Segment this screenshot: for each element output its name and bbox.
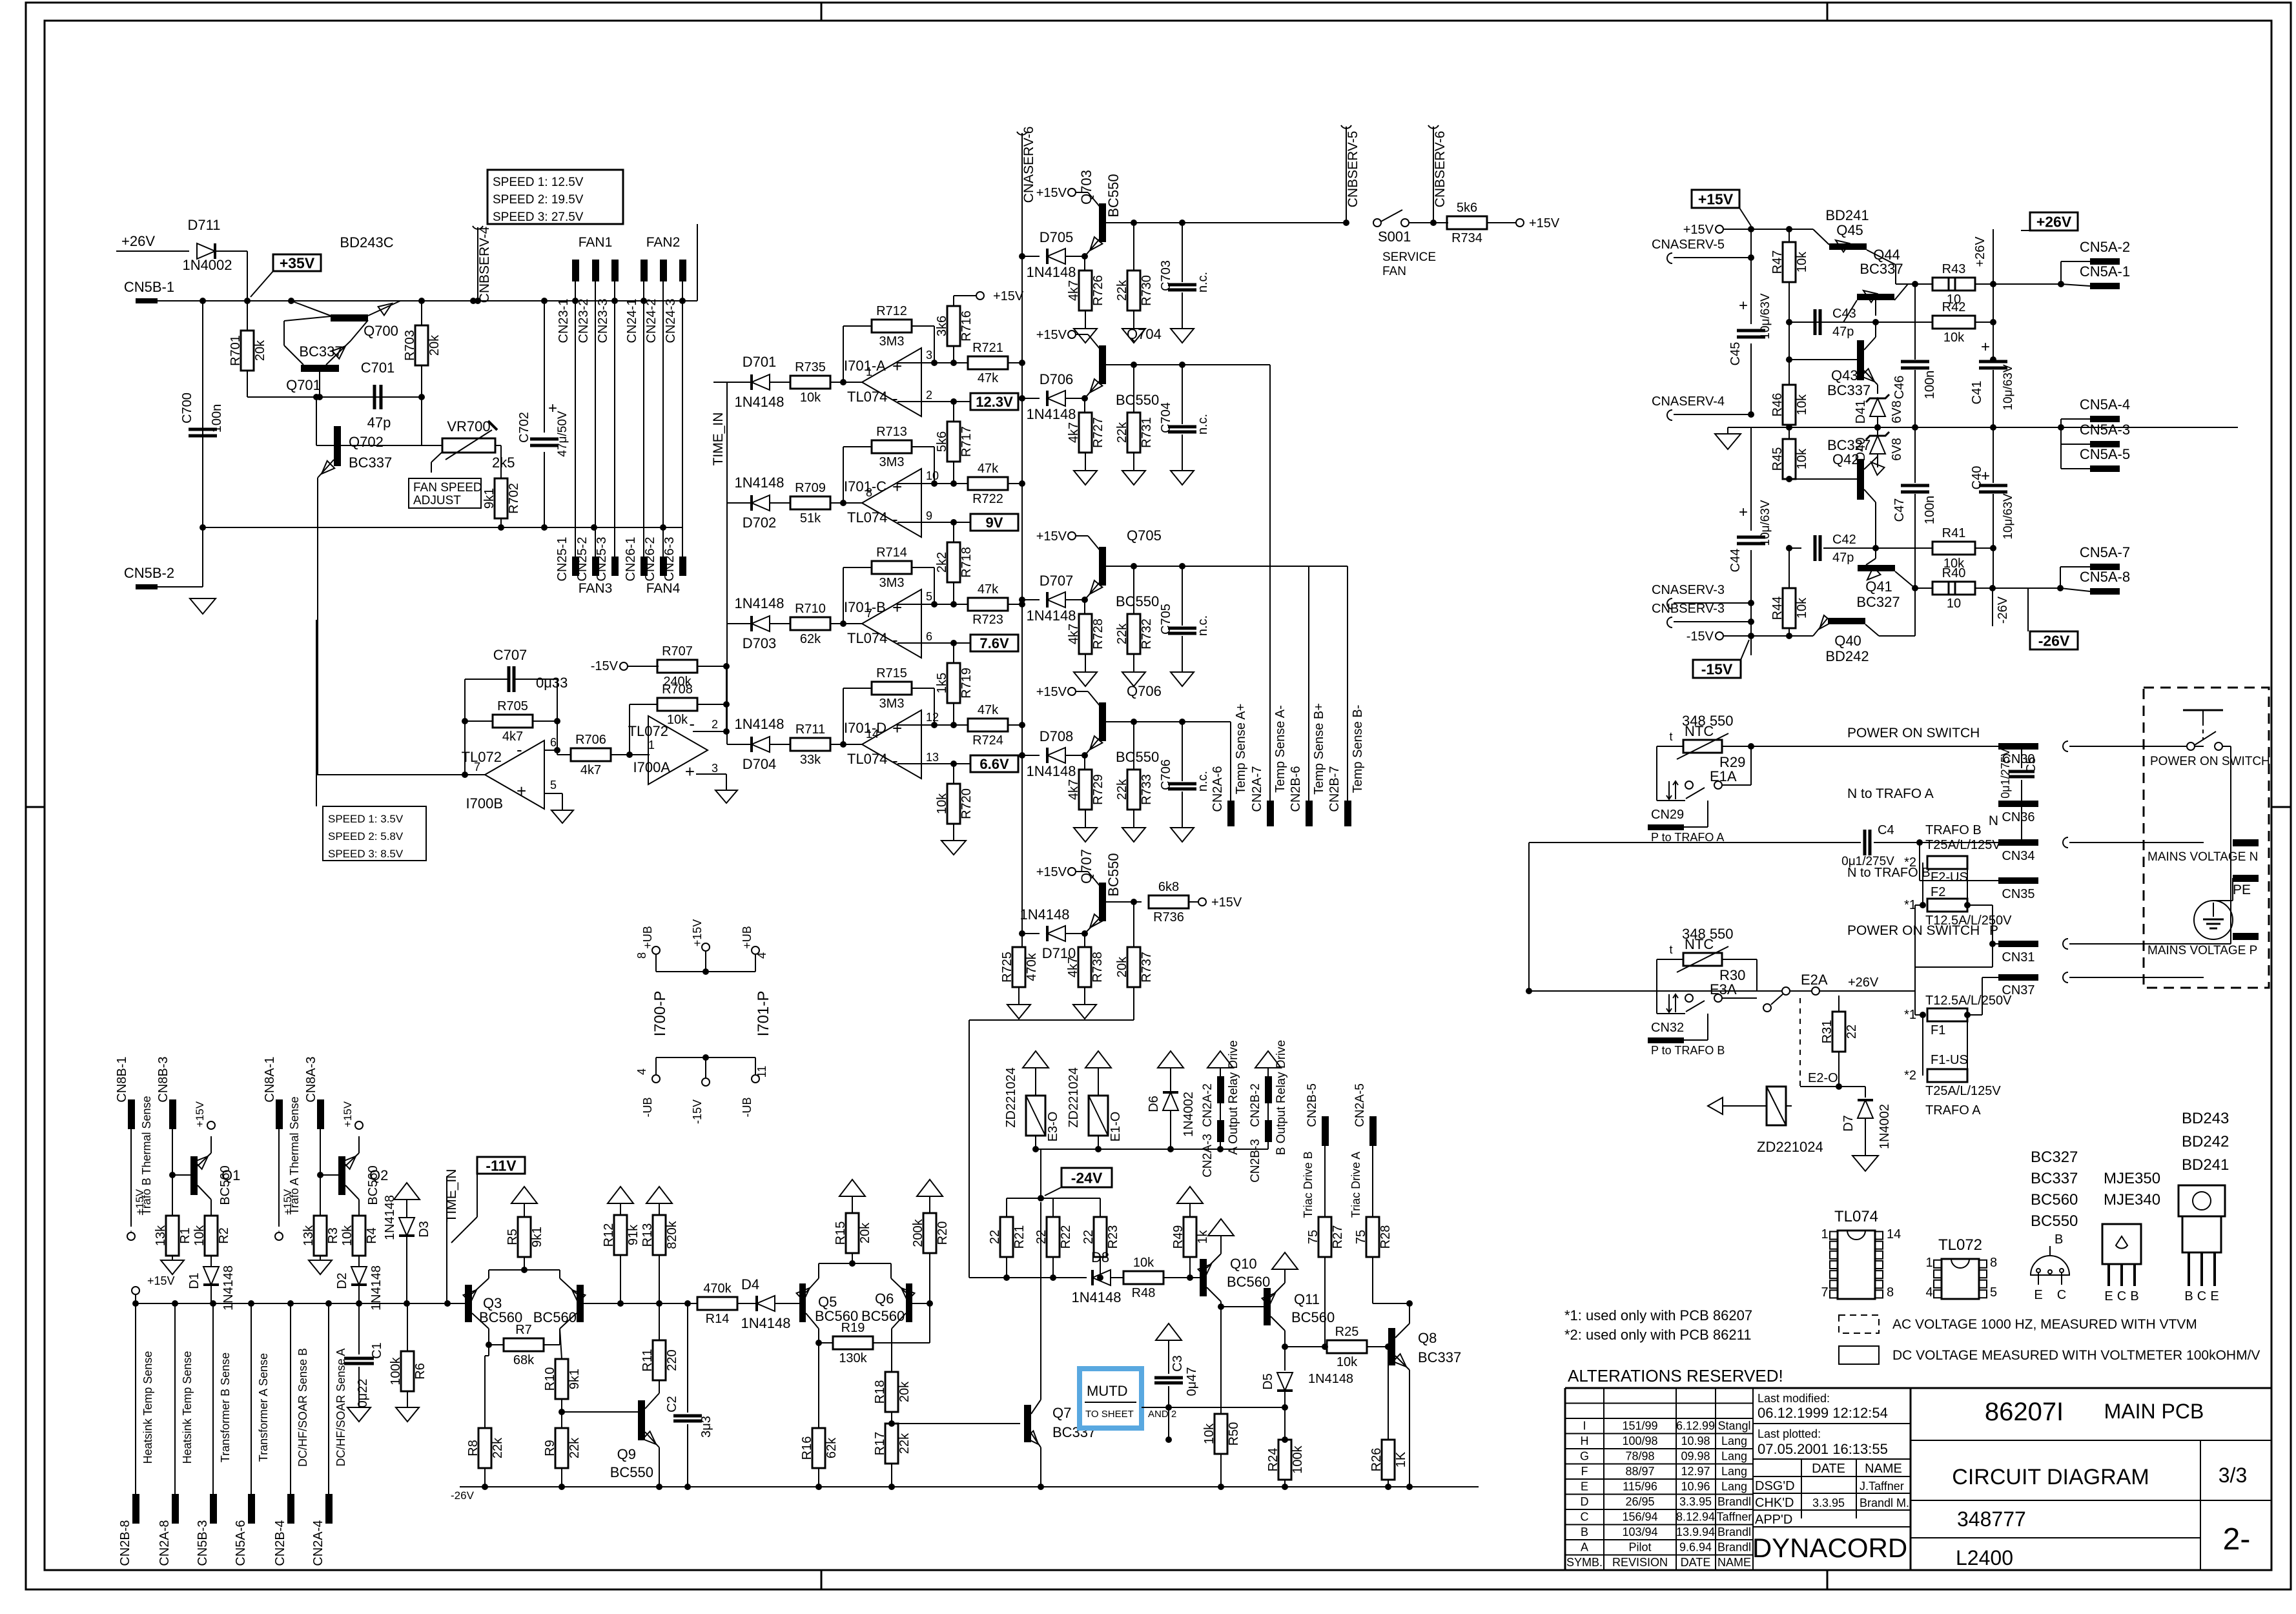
op-amp I701-A TL074: [844, 348, 932, 416]
svg-text:+26V: +26V: [1848, 976, 1879, 990]
svg-text:CN2A-8: CN2A-8: [158, 1520, 172, 1566]
connector pin CN2B-7: [1327, 705, 1365, 826]
feedback resistor R713 3M3: [843, 425, 934, 503]
capacitor C43 47p: [1789, 307, 1879, 339]
svg-text:R726: R726: [1091, 275, 1105, 306]
wire Q702 emitter down: [316, 620, 317, 775]
svg-text:5k6: 5k6: [1457, 201, 1477, 215]
capacitor C47 100n: [1892, 427, 1937, 588]
svg-text:BC560: BC560: [1291, 1309, 1335, 1325]
svg-text:6V8: 6V8: [1890, 400, 1904, 424]
svg-text:3M3: 3M3: [879, 334, 905, 349]
wire base row right: [594, 1300, 697, 1307]
svg-text:CN2B-8: CN2B-8: [118, 1520, 132, 1566]
svg-text:-: -: [892, 751, 898, 770]
wire output row Q706: [1123, 719, 1198, 725]
svg-text:-15V: -15V: [1701, 660, 1733, 677]
svg-text:Q707: Q707: [1078, 849, 1094, 884]
svg-text:3.3.95: 3.3.95: [1679, 1495, 1712, 1508]
resistor R706 4k7: [557, 733, 650, 777]
capacitor C700 100n: [180, 393, 224, 436]
svg-text:CN2A-2: CN2A-2: [1201, 1083, 1215, 1127]
column CNASERV-4: [1652, 394, 1754, 420]
diode D711 1N4002: [182, 217, 232, 273]
svg-text:N to TRAFO A: N to TRAFO A: [1847, 786, 1934, 801]
connector pin CN2A-3: [1201, 1040, 1240, 1178]
svg-text:ZD221024: ZD221024: [1757, 1139, 1823, 1155]
svg-text:CN8A-3: CN8A-3: [304, 1056, 318, 1102]
svg-text:R42: R42: [1942, 300, 1966, 314]
op-amp I701-C TL074: [844, 469, 939, 537]
svg-text:E3A: E3A: [1710, 981, 1737, 997]
resistor R702 9k1: [482, 478, 521, 527]
svg-text:2: 2: [712, 718, 718, 731]
svg-text:10μ/63V: 10μ/63V: [2002, 364, 2015, 410]
svg-text:10.96: 10.96: [1681, 1480, 1710, 1493]
svg-text:R16: R16: [800, 1436, 814, 1460]
wire bottom sense rail: [132, 1300, 467, 1307]
svg-text:Q8: Q8: [1418, 1330, 1437, 1346]
svg-text:-15V: -15V: [1686, 629, 1714, 644]
svg-text:R708: R708: [662, 682, 693, 697]
connector pin CN2B-6: [1289, 703, 1326, 826]
svg-text:BC337: BC337: [1827, 382, 1871, 398]
resistor R50 10k: [1202, 1314, 1241, 1487]
svg-text:1N4148: 1N4148: [1026, 608, 1076, 624]
svg-text:TIME_IN: TIME_IN: [444, 1169, 459, 1223]
ground R738: [1073, 1005, 1096, 1019]
TO-126 package drawing: [2102, 1224, 2141, 1303]
svg-text:4k7: 4k7: [1066, 957, 1080, 977]
svg-text:20k: 20k: [1115, 956, 1129, 977]
svg-text:-UB: -UB: [741, 1098, 753, 1118]
svg-text:14: 14: [1887, 1227, 1901, 1241]
svg-text:C45: C45: [1728, 342, 1743, 366]
svg-text:D701: D701: [743, 354, 777, 370]
svg-text:10k: 10k: [340, 1225, 354, 1246]
svg-text:1N4148: 1N4148: [734, 475, 784, 491]
wire fuse out to P: [1989, 905, 1998, 947]
svg-text:1N4002: 1N4002: [1182, 1092, 1196, 1137]
svg-text:R41: R41: [1942, 526, 1966, 540]
resistor R716 3k6: [935, 289, 1024, 363]
svg-text:+15V: +15V: [1036, 685, 1067, 699]
connector pin CN5A-2: [2061, 239, 2130, 284]
svg-text:-26V: -26V: [2038, 632, 2070, 649]
svg-text:Lang: Lang: [1721, 1480, 1747, 1493]
svg-text:+26V: +26V: [2036, 213, 2072, 230]
svg-text:+15V: +15V: [1036, 328, 1067, 342]
svg-text:SPEED 3: 8.5V: SPEED 3: 8.5V: [328, 848, 404, 860]
svg-text:R737: R737: [1140, 952, 1154, 983]
transistor Q707 BC550: [1036, 849, 1142, 934]
svg-text:CN25-3: CN25-3: [595, 537, 609, 582]
svg-text:2: 2: [926, 389, 932, 402]
svg-text:CN2A-3: CN2A-3: [1201, 1134, 1215, 1178]
svg-text:E1A: E1A: [1710, 768, 1737, 784]
svg-text:CN35: CN35: [2002, 887, 2035, 901]
leader +15V box: [1739, 208, 1751, 226]
svg-text:C42: C42: [1832, 533, 1856, 547]
svg-text:BC337: BC337: [1860, 261, 1903, 277]
ground D7: [1852, 1156, 1878, 1171]
svg-text:100n: 100n: [210, 404, 224, 433]
svg-text:13.9.94: 13.9.94: [1676, 1526, 1715, 1538]
svg-text:4k7: 4k7: [502, 730, 523, 744]
transistor Q7 BC337: [892, 1202, 1096, 1487]
svg-text:-: -: [689, 714, 695, 733]
relay coil E1-O ZD221024: [1067, 1051, 1123, 1149]
diode D701 1N4148: [734, 354, 784, 410]
svg-text:R709: R709: [795, 481, 826, 495]
diode D1 1N4148: [187, 1265, 236, 1311]
svg-text:CN26-3: CN26-3: [662, 537, 677, 582]
svg-text:Triac Drive A: Triac Drive A: [1349, 1152, 1362, 1218]
svg-text:t: t: [1669, 730, 1672, 743]
svg-text:Q9: Q9: [617, 1446, 636, 1462]
svg-text:BC560: BC560: [218, 1165, 232, 1205]
svg-text:1k: 1k: [1196, 1229, 1210, 1243]
svg-text:1: 1: [866, 365, 872, 378]
capacitor C44 10u/63V: [1728, 427, 1772, 655]
svg-text:22k: 22k: [491, 1437, 505, 1458]
svg-text:12.97: 12.97: [1681, 1465, 1710, 1478]
svg-text:12: 12: [926, 711, 939, 724]
resistor R7 68k: [486, 1323, 560, 1367]
svg-text:C703: C703: [1159, 260, 1173, 291]
svg-text:R49: R49: [1171, 1225, 1185, 1249]
svg-text:4: 4: [1925, 1285, 1932, 1300]
ground R732: [1122, 672, 1145, 686]
svg-text:+15V: +15V: [342, 1101, 354, 1127]
svg-text:2k5: 2k5: [492, 455, 515, 471]
svg-text:+UB: +UB: [641, 926, 654, 949]
capacitor C42 47p: [1786, 533, 1879, 565]
svg-text:8.12.94: 8.12.94: [1676, 1511, 1715, 1524]
svg-text:C: C: [2117, 1289, 2126, 1303]
svg-text:R5: R5: [506, 1229, 520, 1245]
svg-text:CN23-1: CN23-1: [557, 299, 571, 343]
column CNBSERV-3: [1652, 602, 1754, 628]
svg-text:TL072: TL072: [1938, 1236, 1982, 1254]
svg-text:115/96: 115/96: [1623, 1480, 1657, 1493]
svg-text:TL074: TL074: [1834, 1208, 1878, 1225]
resistor R18 20k: [873, 1372, 912, 1427]
svg-text:I700A: I700A: [633, 759, 671, 775]
svg-text:Trafo A Thermal Sense: Trafo A Thermal Sense: [288, 1096, 301, 1214]
wire MUTD row: [1165, 1404, 1288, 1411]
svg-text:I701-P: I701-P: [755, 991, 772, 1037]
svg-text:Taffner: Taffner: [1717, 1511, 1752, 1524]
resistor R1 13k: [154, 1175, 192, 1260]
svg-text:NTC: NTC: [1685, 936, 1714, 952]
svg-text:22: 22: [1081, 1230, 1096, 1244]
svg-text:CNASERV-3: CNASERV-3: [1652, 583, 1725, 597]
svg-text:10k: 10k: [1943, 331, 1965, 345]
svg-text:1N4148: 1N4148: [383, 1195, 397, 1240]
svg-text:E: E: [2104, 1289, 2113, 1303]
svg-text:51k: 51k: [800, 511, 821, 526]
svg-text:R735: R735: [795, 360, 826, 374]
resistor R2 10k: [192, 1216, 231, 1267]
svg-text:P: P: [1989, 923, 1998, 938]
svg-text:Q6: Q6: [875, 1291, 894, 1307]
wire I701-D +input: [897, 722, 969, 728]
svg-text:10k: 10k: [800, 391, 821, 405]
svg-text:1N4148: 1N4148: [1026, 264, 1076, 280]
svg-text:R720: R720: [959, 788, 974, 819]
svg-text:+15V: +15V: [194, 1101, 206, 1127]
svg-text:47k: 47k: [978, 462, 999, 476]
svg-text:62k: 62k: [800, 632, 821, 646]
svg-text:Q42: Q42: [1832, 451, 1860, 467]
svg-text:+26V: +26V: [121, 233, 155, 249]
resistor R19 130k: [815, 1321, 930, 1365]
relay coil E2-O ZD221024: [1708, 998, 1839, 1155]
diode D706 1N4148: [1019, 371, 1088, 422]
svg-text:R3: R3: [326, 1227, 340, 1244]
svg-text:G: G: [1580, 1450, 1589, 1463]
svg-text:R44: R44: [1770, 597, 1785, 620]
power switch symbol in box: [2175, 710, 2231, 944]
svg-text:Q10: Q10: [1230, 1256, 1257, 1272]
svg-text:R710: R710: [795, 602, 826, 616]
svg-text:D41: D41: [1854, 400, 1868, 424]
svg-text:R701: R701: [229, 335, 243, 366]
resistor R16 62k: [800, 1342, 839, 1487]
svg-text:22: 22: [1845, 1025, 1859, 1039]
svg-text:1N4148: 1N4148: [1071, 1289, 1121, 1305]
resistor R725 470k: [1000, 934, 1039, 1005]
wire Q705 row to CN2B-6 column: [1198, 566, 1309, 805]
svg-text:ALTERATIONS RESERVED!: ALTERATIONS RESERVED!: [1568, 1366, 1783, 1385]
transistor Q5 BC560: [797, 1263, 859, 1342]
resistor R8 22k: [466, 1356, 505, 1487]
svg-text:BC560: BC560: [366, 1165, 380, 1205]
wire output row Q705: [1123, 563, 1198, 569]
svg-text:R738: R738: [1091, 952, 1105, 983]
op-amp I701-B TL074: [844, 589, 932, 658]
svg-text:DYNACORD: DYNACORD: [1752, 1533, 1907, 1563]
svg-text:3M3: 3M3: [879, 576, 905, 590]
zener D40 6V8: [1854, 427, 1904, 467]
svg-text:7: 7: [474, 761, 480, 773]
svg-text:07.05.2001 16:13:55: 07.05.2001 16:13:55: [1758, 1441, 1888, 1457]
fuse F1: [1904, 994, 2012, 1037]
wire Q8 base R26: [1385, 1343, 1391, 1350]
svg-text:348777: 348777: [1957, 1507, 2026, 1531]
speed table box 2: [316, 775, 426, 861]
resistor R41 10k: [1876, 526, 1996, 571]
svg-text:200k: 200k: [911, 1218, 925, 1247]
svg-text:F: F: [1581, 1465, 1588, 1478]
svg-text:47p: 47p: [367, 414, 391, 431]
svg-text:SPEED 2: 5.8V: SPEED 2: 5.8V: [328, 830, 404, 843]
svg-text:20k: 20k: [253, 340, 267, 361]
svg-text:R719: R719: [959, 668, 974, 699]
resistor R13 820k: [641, 1187, 679, 1307]
svg-text:22k: 22k: [568, 1437, 582, 1458]
TO-220 package drawing: [2178, 1185, 2225, 1303]
transistor type list BC327 BC337 BC560 BC550: [2031, 1149, 2078, 1230]
svg-text:-: -: [892, 630, 898, 649]
svg-text:R736: R736: [1153, 910, 1184, 924]
svg-text:CN2B-4: CN2B-4: [273, 1520, 287, 1566]
resistor R40 10: [1915, 566, 1996, 611]
svg-text:3.3.95: 3.3.95: [1812, 1497, 1845, 1509]
svg-text:88/97: 88/97: [1625, 1465, 1654, 1478]
connector pin CN26-2: [643, 537, 667, 582]
wire Q44 emitter node: [1915, 284, 1933, 360]
svg-text:n.c.: n.c.: [1196, 615, 1210, 636]
svg-text:P to TRAFO B: P to TRAFO B: [1651, 1044, 1725, 1057]
svg-text:R713: R713: [876, 425, 907, 439]
switch S001 SERVICE FAN: [1373, 210, 1436, 278]
svg-text:B: B: [1581, 1526, 1588, 1538]
ground R731: [1122, 471, 1145, 485]
svg-text:D1: D1: [187, 1272, 201, 1289]
svg-text:6V8: 6V8: [1890, 438, 1904, 461]
label MAINS VOLTAGE P: [2147, 933, 2259, 957]
svg-text:-15V: -15V: [591, 659, 619, 673]
resistor R729 4k7: [1067, 755, 1105, 828]
svg-text:DC VOLTAGE MEASURED WITH VOLTM: DC VOLTAGE MEASURED WITH VOLTMETER 100kO…: [1892, 1348, 2260, 1363]
svg-text:E2-O: E2-O: [1808, 1071, 1838, 1085]
svg-text:R45: R45: [1770, 447, 1785, 471]
svg-text:BD243: BD243: [2182, 1110, 2229, 1127]
svg-text:62k: 62k: [825, 1437, 839, 1458]
svg-text:6: 6: [550, 736, 557, 749]
wire I701-C +input: [897, 480, 969, 487]
transistor Q2 BC560: [320, 1101, 388, 1216]
diode D5 1N4148: [1261, 1347, 1353, 1443]
transistor Q705 BC550: [1036, 527, 1162, 609]
bottom -26V rail: [451, 1484, 1479, 1502]
svg-text:100k: 100k: [1291, 1445, 1305, 1473]
svg-text:R11: R11: [641, 1349, 655, 1371]
connector pin CN2B-4: [273, 1303, 309, 1566]
svg-text:3/3: 3/3: [2219, 1464, 2247, 1487]
svg-text:MAINS VOLTAGE P: MAINS VOLTAGE P: [2147, 944, 2257, 957]
relay contact E2A: [1526, 972, 1915, 1012]
IC package TL074: [1830, 1208, 1883, 1299]
svg-text:C706: C706: [1159, 759, 1173, 790]
svg-text:Heatsink Temp Sense: Heatsink Temp Sense: [181, 1351, 194, 1464]
svg-text:R43: R43: [1942, 262, 1966, 276]
svg-text:SPEED 2: 19.5V: SPEED 2: 19.5V: [493, 193, 584, 207]
potentiometer VR700 2k5: [422, 418, 515, 478]
ground mid rail: [1715, 427, 1741, 449]
resistor R737 20k: [1115, 902, 1154, 1020]
wire D711 to +35V node: [215, 251, 247, 300]
svg-text:-: -: [892, 509, 898, 529]
svg-text:CNASERV-4: CNASERV-4: [1652, 394, 1725, 409]
svg-text:SYMB.: SYMB.: [1566, 1556, 1603, 1569]
svg-text:R28: R28: [1379, 1225, 1393, 1249]
svg-text:Q701: Q701: [286, 377, 321, 393]
svg-text:CNBSERV-4: CNBSERV-4: [477, 226, 492, 303]
resistor R726 4k7: [1067, 256, 1105, 329]
connector pin CN25-1: [555, 537, 579, 582]
resistor R731 22k: [1115, 365, 1154, 471]
svg-text:22k: 22k: [897, 1433, 912, 1454]
terminal +15V bottom rail: [132, 1274, 175, 1303]
svg-text:4: 4: [755, 952, 768, 959]
svg-text:D3: D3: [417, 1221, 431, 1238]
svg-text:R26: R26: [1369, 1448, 1384, 1472]
svg-text:C700: C700: [180, 393, 194, 424]
svg-text:10k: 10k: [935, 793, 949, 814]
diode D6 1N4002: [1147, 1051, 1196, 1149]
svg-text:F1: F1: [1931, 1023, 1945, 1037]
title block table: [1565, 1388, 2271, 1570]
wire I701-A +input: [897, 360, 969, 366]
svg-text:CN8B-3: CN8B-3: [156, 1056, 170, 1102]
svg-text:D703: D703: [743, 635, 777, 651]
resistor R708 10k: [630, 682, 730, 755]
resistor R31 22: [1820, 976, 1879, 1090]
svg-text:*2: *2: [1904, 855, 1916, 870]
svg-text:BD242: BD242: [2182, 1133, 2229, 1150]
fuse F2-US: [1904, 823, 2001, 884]
svg-text:47p: 47p: [1832, 325, 1854, 339]
connector pin CN32: [1648, 1014, 1725, 1057]
wire NTC R30: [1657, 959, 1757, 991]
svg-text:SPEED 1: 12.5V: SPEED 1: 12.5V: [493, 176, 584, 189]
svg-text:CNASERV-5: CNASERV-5: [1652, 238, 1725, 252]
label MAINS VOLTAGE N: [2147, 839, 2259, 864]
wire I700B pin5 to ground: [544, 793, 562, 810]
svg-text:R729: R729: [1091, 774, 1105, 805]
ground symbol CN5B-2: [190, 598, 216, 614]
svg-text:CN5A-8: CN5A-8: [2080, 569, 2130, 585]
svg-text:R50: R50: [1227, 1422, 1241, 1446]
wire TIME_IN column mid: [711, 382, 727, 744]
svg-text:156/94: 156/94: [1622, 1511, 1657, 1524]
svg-text:+35V: +35V: [280, 254, 315, 271]
svg-text:R706: R706: [575, 733, 606, 747]
wire ground rail: [158, 524, 682, 587]
transistor Q42 BC327: [1786, 437, 1885, 516]
resistor R46 10k: [1770, 322, 1809, 431]
connector pin CN2A-2: [1201, 1051, 1233, 1127]
svg-text:CNASERV-6: CNASERV-6: [1021, 127, 1036, 203]
resistor R21 22: [988, 1198, 1027, 1281]
svg-text:E2A: E2A: [1801, 972, 1828, 988]
relay contact E1A: [1657, 746, 1751, 801]
svg-text:MJE350: MJE350: [2104, 1170, 2160, 1187]
svg-text:-15V: -15V: [691, 1099, 704, 1124]
ground C704: [1171, 471, 1194, 485]
svg-text:20k: 20k: [858, 1222, 872, 1243]
ground R728: [1074, 672, 1097, 686]
measure box 12.3V: [970, 393, 1018, 410]
svg-text:R7: R7: [515, 1323, 532, 1337]
svg-text:D702: D702: [743, 515, 777, 531]
svg-text:4k7: 4k7: [1067, 422, 1081, 443]
svg-text:Q40: Q40: [1834, 633, 1861, 649]
wire +26V box leader: [2021, 230, 2030, 231]
svg-text:3M3: 3M3: [879, 455, 905, 469]
transistor Q701 BC337: [284, 316, 368, 397]
svg-text:C: C: [2057, 1288, 2066, 1302]
svg-text:R27: R27: [1331, 1225, 1345, 1249]
svg-text:6.12.99: 6.12.99: [1676, 1420, 1715, 1433]
svg-text:R14: R14: [706, 1312, 730, 1326]
svg-text:BC560: BC560: [861, 1308, 905, 1324]
capacitor C2 3u3: [665, 1303, 713, 1487]
svg-text:APP'D: APP'D: [1755, 1513, 1792, 1527]
